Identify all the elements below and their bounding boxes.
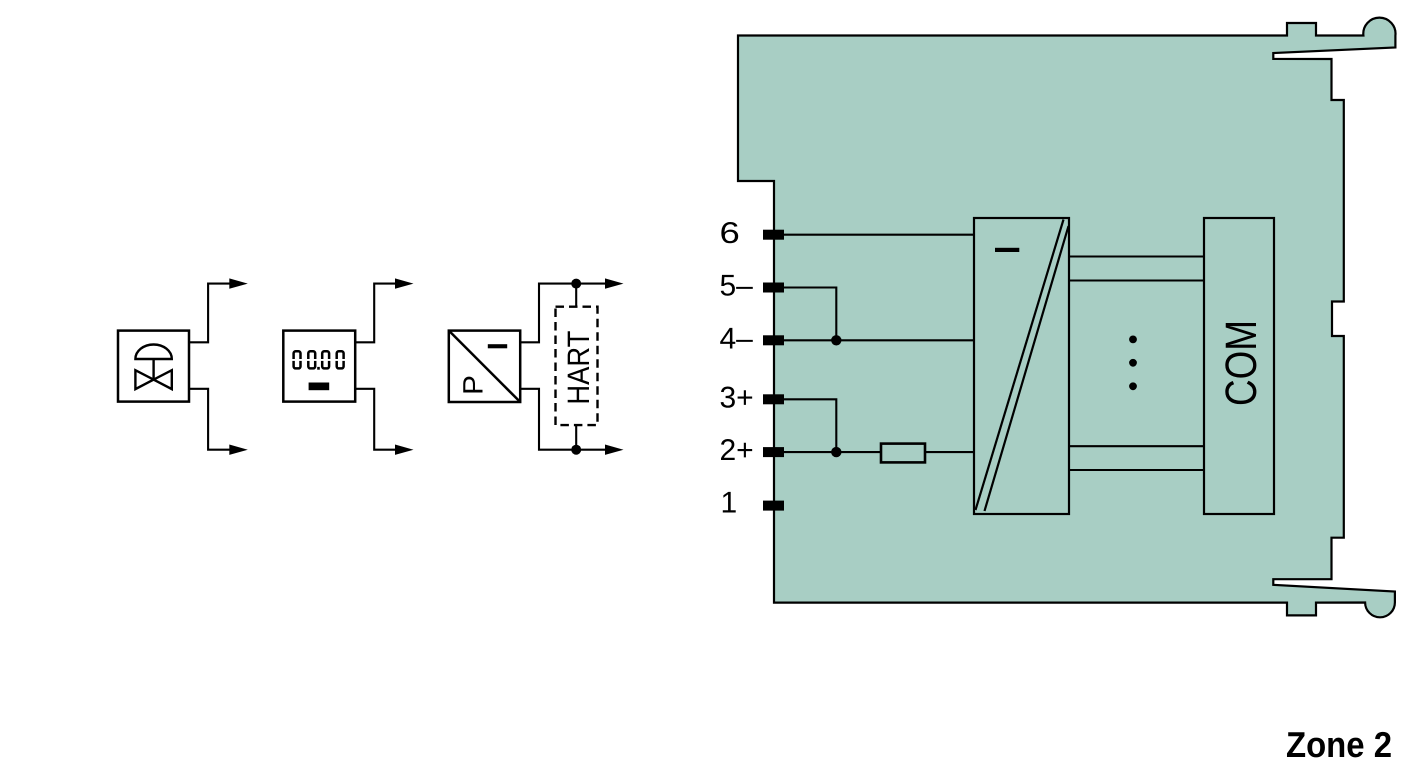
P/I bottom stub wire — [520, 389, 606, 450]
isolation barrier diagonal 1 — [976, 220, 1064, 511]
bus line bottom 2 — [1069, 469, 1204, 471]
HART junction dot bottom — [571, 445, 581, 455]
valve top arrow — [229, 278, 248, 288]
terminal 3+ — [763, 394, 784, 404]
bus line top 1 — [1069, 255, 1204, 257]
junction dot 5-/4- — [831, 335, 841, 345]
display top arrow — [395, 278, 414, 288]
P/I bottom arrow — [605, 445, 624, 455]
svg-text:4–: 4– — [720, 322, 754, 355]
bus line top 2 — [1069, 279, 1204, 281]
wire terminal 6 to isolator — [784, 234, 974, 236]
valve bottom arrow — [229, 445, 248, 455]
junction dot 3+/2+ — [831, 447, 841, 457]
ellipsis dot 1 — [1129, 336, 1137, 344]
ellipsis dot 3 — [1129, 382, 1137, 390]
display digit segment gaps — [291, 359, 348, 361]
valve body left triangle — [135, 370, 153, 389]
terminal 4- — [763, 335, 784, 345]
svg-text:5–: 5– — [720, 270, 754, 303]
digital display symbol box — [283, 331, 355, 402]
display digit 0 (1st) — [294, 351, 301, 368]
svg-text:2+: 2+ — [720, 434, 754, 467]
wire terminal 4- to isolator — [784, 339, 974, 341]
COM interface box — [1204, 218, 1274, 514]
HART junction dot top — [571, 279, 581, 289]
svg-text:COM: COM — [1217, 320, 1266, 406]
P/I top stub wire — [520, 284, 606, 343]
bus line bottom 1 — [1069, 445, 1204, 447]
wire terminal 2+ to resistor — [784, 451, 881, 453]
valve stem — [152, 359, 154, 380]
valve bottom stub wire — [189, 389, 231, 450]
P/I diagonal — [450, 331, 520, 401]
I label — [488, 344, 507, 348]
display digit 0 (4th) — [337, 351, 344, 368]
ellipsis dot 2 — [1129, 359, 1137, 367]
minus polarity mark — [995, 248, 1019, 252]
svg-text:Zone 2: Zone 2 — [1286, 724, 1392, 765]
wire resistor to isolator — [925, 451, 974, 453]
display digit 0 (2nd) — [308, 351, 315, 368]
display top stub wire — [355, 284, 396, 343]
wire terminal 5- stub — [784, 288, 836, 341]
valve body right triangle — [154, 370, 172, 389]
svg-text:6: 6 — [720, 217, 740, 250]
HART modem dashed box — [556, 307, 598, 425]
terminal 2+ — [763, 447, 784, 457]
svg-text:P: P — [458, 375, 489, 395]
display bar indicator — [309, 383, 330, 391]
P/I top arrow — [605, 278, 624, 288]
isolation amplifier U1 box — [974, 218, 1069, 514]
svg-text:3+: 3+ — [720, 381, 754, 414]
P/I converter box — [449, 331, 520, 402]
module body (Zone 2 isolator housing) — [738, 18, 1396, 618]
terminal 6 — [763, 230, 784, 240]
display decimal point — [317, 367, 320, 370]
wire terminal 3+ stub — [784, 399, 836, 452]
display bottom arrow — [395, 445, 414, 455]
valve top stub wire — [189, 284, 231, 343]
terminal 1 — [763, 501, 784, 511]
terminal 5- — [763, 283, 784, 293]
isolation barrier diagonal 2 — [985, 226, 1069, 511]
svg-text:HART: HART — [561, 331, 596, 405]
display digit 0 (3rd) — [322, 351, 329, 368]
HART connector bottom — [575, 425, 577, 450]
HART connector top — [575, 284, 577, 307]
control valve symbol box — [118, 331, 189, 402]
svg-text:1: 1 — [721, 486, 738, 519]
display bottom stub wire — [355, 389, 396, 450]
valve actuator dome — [135, 345, 171, 359]
resistor R1 — [881, 444, 925, 463]
